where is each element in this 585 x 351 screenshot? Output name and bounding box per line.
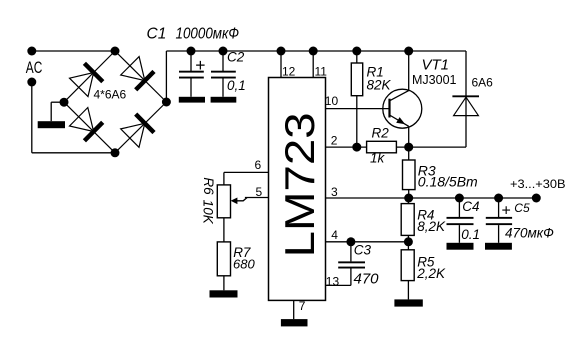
svg-text:C5: C5 [514, 201, 530, 215]
svg-text:8,2K: 8,2K [417, 219, 446, 234]
svg-text:+: + [502, 203, 511, 220]
svg-text:C3: C3 [354, 243, 372, 258]
svg-text:0.1: 0.1 [461, 227, 480, 242]
svg-text:+3...+30В: +3...+30В [510, 177, 566, 191]
svg-text:6: 6 [255, 158, 262, 172]
svg-text:4*6A6: 4*6A6 [94, 88, 127, 102]
svg-text:680: 680 [233, 256, 255, 271]
svg-text:R6: R6 [201, 177, 216, 195]
svg-text:11: 11 [315, 64, 328, 78]
svg-text:MJ3001: MJ3001 [412, 73, 457, 87]
svg-text:10000мкФ: 10000мкФ [176, 26, 240, 43]
svg-text:470: 470 [354, 270, 380, 287]
svg-text:13: 13 [326, 274, 340, 288]
svg-text:10K: 10K [200, 200, 215, 225]
svg-text:+: + [195, 55, 205, 75]
svg-text:7: 7 [299, 299, 306, 313]
svg-text:R2: R2 [372, 126, 390, 141]
svg-text:6A6: 6A6 [472, 75, 494, 89]
svg-text:470мкФ: 470мкФ [505, 225, 554, 240]
svg-text:LM723: LM723 [276, 112, 323, 257]
svg-text:C1: C1 [147, 26, 167, 43]
svg-text:AC: AC [26, 59, 43, 77]
svg-text:C4: C4 [462, 199, 479, 214]
svg-text:2,2K: 2,2K [416, 266, 446, 281]
svg-text:82K: 82K [367, 78, 392, 93]
svg-text:0,1: 0,1 [227, 78, 246, 93]
svg-text:VT1: VT1 [422, 57, 450, 74]
svg-text:0.18/5Вт: 0.18/5Вт [418, 173, 478, 189]
svg-text:1k: 1k [370, 151, 386, 166]
svg-text:5: 5 [256, 185, 263, 199]
svg-text:12: 12 [282, 64, 296, 78]
svg-text:10: 10 [325, 94, 339, 108]
svg-text:2: 2 [331, 133, 338, 147]
svg-text:4: 4 [331, 228, 338, 242]
svg-text:3: 3 [331, 185, 338, 199]
svg-text:C2: C2 [227, 49, 245, 64]
